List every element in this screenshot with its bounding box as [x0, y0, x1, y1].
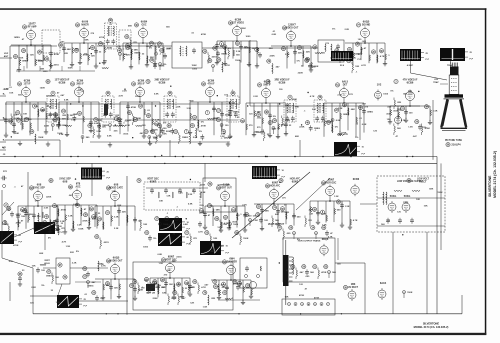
- svg-text:HV RECT: HV RECT: [348, 287, 359, 289]
- svg-text:5%: 5%: [273, 116, 276, 118]
- svg-text:2.2K: 2.2K: [285, 212, 290, 214]
- svg-text:68K: 68K: [117, 205, 121, 207]
- svg-text:3.3K: 3.3K: [14, 118, 19, 120]
- svg-text:2.2K: 2.2K: [124, 120, 129, 122]
- svg-text:470K: 470K: [321, 271, 327, 274]
- svg-text:1000: 1000: [383, 93, 389, 95]
- svg-text:68K: 68K: [216, 210, 220, 212]
- svg-text:150K: 150K: [18, 58, 24, 60]
- svg-text:6.8K: 6.8K: [336, 120, 341, 122]
- svg-text:68K: 68K: [265, 211, 269, 213]
- svg-text:470K: 470K: [199, 211, 205, 214]
- svg-text:21ALP4: 21ALP4: [451, 143, 461, 146]
- svg-text:68K: 68K: [103, 60, 107, 62]
- svg-text:P-P: P-P: [84, 306, 88, 308]
- svg-text:VERT OUTPUT: VERT OUTPUT: [268, 224, 285, 226]
- svg-text:6.8K: 6.8K: [94, 123, 99, 125]
- svg-text:.0015: .0015: [176, 257, 182, 259]
- svg-text:470K: 470K: [13, 244, 19, 247]
- svg-text:470K: 470K: [314, 297, 320, 300]
- svg-text:10K: 10K: [9, 93, 13, 95]
- svg-text:1MEG: 1MEG: [52, 119, 58, 121]
- svg-text:2ND IF: 2ND IF: [76, 84, 84, 86]
- svg-text:5%: 5%: [297, 61, 300, 63]
- svg-text:NOISE GATE: NOISE GATE: [109, 187, 123, 190]
- svg-text:4.7K: 4.7K: [328, 236, 333, 239]
- svg-text:6CD6: 6CD6: [353, 178, 360, 181]
- svg-text:5%: 5%: [48, 238, 51, 240]
- svg-text:1000: 1000: [192, 69, 198, 71]
- svg-text:DET: DET: [343, 85, 348, 87]
- svg-text:PICTURE TUBE: PICTURE TUBE: [445, 140, 462, 142]
- svg-text:2.2K: 2.2K: [72, 263, 77, 265]
- svg-text:220K: 220K: [200, 184, 206, 186]
- svg-text:SILVERTONE: SILVERTONE: [488, 175, 492, 197]
- svg-text:.0015: .0015: [15, 214, 21, 216]
- svg-text:22K: 22K: [99, 264, 103, 266]
- svg-text:1.5K: 1.5K: [253, 220, 258, 222]
- svg-text:MODEL 2174 (Ch. 132.035-2): MODEL 2174 (Ch. 132.035-2): [493, 151, 497, 198]
- svg-text:5%: 5%: [390, 91, 393, 93]
- svg-text:VERT LIN: VERT LIN: [146, 293, 156, 295]
- svg-text:220K: 220K: [241, 28, 247, 30]
- svg-text:SOUND: SOUND: [362, 25, 371, 27]
- svg-text:10K: 10K: [21, 216, 25, 218]
- svg-text:1.5K: 1.5K: [71, 120, 76, 122]
- svg-text:22K: 22K: [62, 115, 66, 117]
- svg-text:3.3K: 3.3K: [36, 60, 41, 62]
- svg-text:1MEG: 1MEG: [182, 137, 188, 139]
- svg-text:2.2K: 2.2K: [190, 287, 195, 289]
- svg-text:P-P: P-P: [470, 59, 474, 61]
- svg-text:6SN7: 6SN7: [150, 180, 157, 184]
- svg-text:1MEG: 1MEG: [102, 125, 108, 127]
- svg-text:.0015: .0015: [53, 64, 59, 66]
- svg-text:4.5MC AMPL: 4.5MC AMPL: [217, 184, 231, 187]
- svg-text:.0015: .0015: [220, 285, 226, 287]
- svg-text:6.8K: 6.8K: [64, 99, 69, 101]
- svg-text:12AT7: 12AT7: [28, 23, 36, 26]
- svg-text:68K: 68K: [172, 261, 176, 263]
- svg-text:6.8K: 6.8K: [272, 34, 277, 36]
- svg-text:470K: 470K: [201, 125, 207, 128]
- svg-text:470K: 470K: [107, 47, 113, 50]
- svg-text:220K: 220K: [135, 96, 141, 98]
- svg-text:5%: 5%: [332, 29, 335, 31]
- svg-text:3.3K: 3.3K: [68, 216, 73, 218]
- svg-text:68K: 68K: [269, 48, 273, 50]
- svg-text:TRAP: TRAP: [433, 81, 439, 84]
- svg-text:5%: 5%: [76, 251, 79, 253]
- svg-text:22K: 22K: [244, 47, 248, 49]
- svg-text:1.5K: 1.5K: [203, 307, 208, 309]
- svg-text:.0015: .0015: [123, 134, 129, 136]
- svg-text:1MEG: 1MEG: [87, 285, 93, 287]
- svg-text:150K: 150K: [67, 68, 73, 70]
- svg-text:5U4G: 5U4G: [404, 195, 411, 198]
- svg-text:10K: 10K: [32, 266, 36, 268]
- svg-text:22K: 22K: [166, 48, 170, 50]
- svg-text:1.5K: 1.5K: [408, 126, 413, 128]
- svg-text:1.5K: 1.5K: [322, 224, 327, 226]
- svg-text:10K: 10K: [159, 201, 163, 203]
- svg-text:6U8: 6U8: [37, 184, 42, 187]
- svg-text:3.3K: 3.3K: [114, 228, 119, 230]
- svg-text:12K: 12K: [213, 238, 217, 240]
- svg-text:220K: 220K: [46, 197, 52, 199]
- svg-text:ANT: ANT: [4, 55, 9, 58]
- svg-text:SYNC SEP: SYNC SEP: [33, 188, 45, 190]
- svg-text:1ST IF: 1ST IF: [24, 84, 31, 86]
- svg-text:12K: 12K: [30, 303, 34, 305]
- svg-text:12K: 12K: [91, 56, 95, 58]
- svg-text:1.5K: 1.5K: [334, 196, 339, 198]
- svg-text:6.8K: 6.8K: [107, 136, 112, 138]
- svg-text:470K: 470K: [201, 33, 207, 36]
- svg-text:5%: 5%: [297, 239, 300, 241]
- svg-text:HOR OUTPUT TRANS: HOR OUTPUT TRANS: [298, 240, 321, 243]
- svg-text:5U4G: 5U4G: [390, 195, 397, 198]
- svg-text:4.7K: 4.7K: [225, 64, 230, 67]
- svg-text:470K: 470K: [131, 106, 137, 109]
- svg-text:22K: 22K: [298, 53, 302, 55]
- svg-text:12K: 12K: [166, 195, 170, 197]
- svg-text:HOLD: HOLD: [44, 263, 50, 265]
- svg-text:6T8: 6T8: [76, 183, 81, 186]
- svg-text:6.8K: 6.8K: [157, 254, 162, 256]
- svg-text:1.5K: 1.5K: [433, 111, 438, 113]
- svg-text:2.2K: 2.2K: [77, 224, 82, 226]
- svg-text:22K: 22K: [122, 212, 126, 214]
- svg-text:SILVERTONE: SILVERTONE: [423, 322, 440, 326]
- svg-text:220K: 220K: [269, 56, 275, 58]
- svg-text:2.2K: 2.2K: [337, 95, 342, 97]
- svg-text:68K: 68K: [39, 253, 43, 255]
- svg-text:12K: 12K: [416, 199, 420, 201]
- svg-text:6W4: 6W4: [229, 258, 235, 261]
- svg-text:12K: 12K: [190, 302, 194, 304]
- svg-text:12K: 12K: [213, 118, 217, 120]
- svg-text:470K: 470K: [299, 294, 305, 297]
- svg-text:22K: 22K: [70, 252, 74, 254]
- svg-text:3.3K: 3.3K: [151, 287, 156, 289]
- svg-text:2.2K: 2.2K: [253, 96, 258, 98]
- svg-text:1MEG: 1MEG: [46, 276, 52, 278]
- svg-text:5%: 5%: [153, 238, 156, 240]
- svg-text:150K: 150K: [40, 88, 46, 90]
- svg-text:5%: 5%: [35, 200, 38, 202]
- svg-text:470K: 470K: [82, 220, 88, 223]
- svg-text:HOR AFC: HOR AFC: [270, 185, 281, 188]
- svg-text:6CB6: 6CB6: [235, 19, 242, 22]
- svg-text:6.8K: 6.8K: [183, 224, 188, 226]
- svg-text:6AU6: 6AU6: [264, 81, 271, 84]
- svg-text:4TH IF: 4TH IF: [207, 83, 215, 86]
- svg-text:470K: 470K: [285, 119, 291, 122]
- svg-text:5%: 5%: [335, 126, 338, 128]
- svg-text:4.7K: 4.7K: [353, 219, 358, 222]
- svg-text:6.8K: 6.8K: [73, 204, 78, 206]
- svg-text:1MEG: 1MEG: [134, 53, 140, 55]
- svg-text:2.2K: 2.2K: [31, 287, 36, 289]
- svg-text:4.7K: 4.7K: [62, 241, 67, 244]
- svg-text:68K: 68K: [295, 136, 299, 138]
- svg-text:1MEG: 1MEG: [158, 66, 164, 68]
- svg-text:6AQ5: 6AQ5: [113, 257, 120, 260]
- svg-text:47K: 47K: [2, 146, 6, 149]
- svg-text:3.3K: 3.3K: [188, 194, 193, 196]
- svg-text:AUDIO OUT: AUDIO OUT: [110, 260, 123, 263]
- svg-text:220K: 220K: [171, 298, 177, 300]
- svg-text:68K: 68K: [134, 50, 138, 52]
- svg-text:220K: 220K: [117, 119, 123, 121]
- svg-text:3RD IF: 3RD IF: [137, 84, 145, 86]
- svg-text:DAMPER: DAMPER: [227, 261, 237, 264]
- svg-text:2.2K: 2.2K: [272, 129, 277, 131]
- svg-text:5%: 5%: [201, 121, 204, 123]
- svg-text:4.7K: 4.7K: [198, 231, 203, 234]
- svg-text:2.2K: 2.2K: [338, 108, 343, 110]
- svg-text:5%: 5%: [306, 59, 309, 61]
- svg-text:2.2K: 2.2K: [242, 204, 247, 206]
- svg-text:22K: 22K: [13, 115, 17, 117]
- svg-text:2.2K: 2.2K: [122, 90, 127, 92]
- svg-text:150K: 150K: [14, 133, 20, 135]
- svg-text:3.3K: 3.3K: [186, 108, 191, 110]
- svg-text:1B3: 1B3: [351, 283, 356, 286]
- svg-text:4.5MC: 4.5MC: [407, 64, 414, 67]
- svg-text:22K: 22K: [64, 53, 68, 55]
- svg-text:6SN7: 6SN7: [272, 182, 279, 185]
- svg-text:150K: 150K: [78, 228, 84, 230]
- svg-text:1.5K: 1.5K: [66, 246, 71, 248]
- svg-text:4.7K: 4.7K: [310, 95, 315, 98]
- svg-text:10K: 10K: [154, 129, 158, 131]
- svg-text:AGC: AGC: [75, 186, 80, 189]
- svg-text:10K: 10K: [169, 284, 173, 286]
- svg-text:12K: 12K: [111, 191, 115, 193]
- svg-text:1000: 1000: [189, 101, 195, 103]
- svg-text:1MEG: 1MEG: [221, 54, 227, 56]
- svg-text:6.8K: 6.8K: [4, 88, 9, 90]
- svg-text:12K: 12K: [30, 55, 34, 57]
- svg-text:5%: 5%: [41, 285, 44, 287]
- svg-text:6AB4: 6AB4: [141, 21, 148, 24]
- svg-text:10K: 10K: [355, 66, 359, 68]
- svg-text:4.7K: 4.7K: [380, 55, 385, 58]
- svg-text:VERT OUT: VERT OUT: [220, 188, 232, 190]
- svg-text:150K: 150K: [407, 292, 413, 294]
- svg-text:.0015: .0015: [210, 251, 216, 253]
- svg-text:1.5K: 1.5K: [285, 105, 290, 107]
- svg-text:2.2K: 2.2K: [285, 54, 290, 56]
- svg-text:68K: 68K: [351, 109, 355, 111]
- svg-text:1V2: 1V2: [377, 84, 382, 87]
- svg-text:6CB6: 6CB6: [59, 81, 66, 85]
- svg-text:220K: 220K: [298, 73, 304, 75]
- svg-text:68K: 68K: [40, 69, 44, 71]
- svg-text:22K: 22K: [62, 119, 66, 121]
- svg-text:5%: 5%: [355, 137, 358, 139]
- svg-text:6AU6: 6AU6: [82, 21, 89, 24]
- svg-text:1000: 1000: [233, 224, 239, 226]
- svg-text:6CB6: 6CB6: [159, 81, 166, 85]
- svg-text:P-P: P-P: [19, 242, 23, 244]
- svg-text:150K: 150K: [254, 131, 260, 133]
- svg-text:12K: 12K: [153, 138, 157, 140]
- svg-text:6CB6: 6CB6: [279, 81, 286, 85]
- svg-text:6U8: 6U8: [114, 184, 119, 187]
- svg-text:3.3K: 3.3K: [236, 51, 241, 53]
- svg-text:MIXER: MIXER: [81, 25, 89, 27]
- svg-text:6AL5: 6AL5: [342, 81, 349, 84]
- svg-text:12BY7: 12BY7: [288, 24, 296, 27]
- svg-text:1.5K: 1.5K: [158, 263, 163, 265]
- svg-text:6CB6: 6CB6: [77, 80, 84, 83]
- svg-text:68K: 68K: [128, 26, 132, 28]
- svg-text:12K: 12K: [114, 288, 118, 290]
- svg-text:6.8K: 6.8K: [188, 204, 193, 206]
- svg-text:22K: 22K: [211, 298, 215, 300]
- svg-text:220K: 220K: [146, 46, 152, 48]
- svg-text:6CB6: 6CB6: [208, 80, 215, 83]
- svg-text:6CB6: 6CB6: [138, 80, 145, 83]
- svg-text:6SN7: 6SN7: [292, 180, 299, 184]
- svg-text:5%: 5%: [199, 131, 202, 133]
- svg-text:10K: 10K: [117, 47, 121, 49]
- svg-text:.0015: .0015: [103, 242, 109, 244]
- svg-text:VIDEO OUT: VIDEO OUT: [286, 28, 299, 30]
- svg-text:3.3K: 3.3K: [125, 125, 130, 127]
- svg-text:1.5K: 1.5K: [178, 192, 183, 194]
- svg-text:.0015: .0015: [211, 57, 217, 59]
- svg-text:RF AMP: RF AMP: [28, 26, 37, 29]
- svg-text:4.7K: 4.7K: [361, 64, 366, 67]
- svg-text:220K: 220K: [292, 99, 298, 101]
- svg-text:5%: 5%: [201, 205, 204, 207]
- svg-text:2.2K: 2.2K: [344, 29, 349, 31]
- svg-text:150K: 150K: [243, 238, 249, 240]
- svg-text:150K: 150K: [38, 137, 44, 139]
- svg-text:1000: 1000: [245, 36, 251, 38]
- svg-text:3.3K: 3.3K: [97, 120, 102, 122]
- svg-text:470K: 470K: [341, 131, 347, 134]
- svg-text:6CB6: 6CB6: [24, 80, 31, 83]
- svg-text:68K: 68K: [275, 214, 279, 216]
- svg-text:P-P: P-P: [282, 177, 286, 179]
- svg-text:P-P: P-P: [358, 59, 362, 61]
- svg-text:1MEG: 1MEG: [367, 112, 373, 114]
- svg-text:10K: 10K: [22, 121, 26, 123]
- svg-text:6AQ5: 6AQ5: [363, 21, 370, 24]
- svg-text:3.3K: 3.3K: [155, 120, 160, 122]
- svg-text:10K: 10K: [424, 206, 428, 208]
- svg-text:1MEG: 1MEG: [233, 112, 239, 114]
- svg-text:22K: 22K: [115, 115, 119, 117]
- svg-text:HOR OSC: HOR OSC: [326, 183, 337, 185]
- svg-text:22K: 22K: [176, 106, 180, 108]
- svg-text:6SN7: 6SN7: [168, 256, 175, 259]
- svg-text:10K: 10K: [284, 296, 288, 298]
- svg-text:68K: 68K: [67, 49, 71, 51]
- svg-text:1.5K: 1.5K: [56, 302, 61, 304]
- svg-text:P-P: P-P: [107, 177, 111, 179]
- svg-text:12K: 12K: [162, 293, 166, 295]
- svg-text:10K: 10K: [223, 224, 227, 226]
- svg-text:P-P: P-P: [362, 154, 366, 156]
- svg-text:470K: 470K: [16, 222, 22, 225]
- svg-text:1000: 1000: [43, 71, 49, 73]
- svg-text:6.8K: 6.8K: [201, 192, 206, 194]
- svg-text:3.3K: 3.3K: [44, 208, 49, 210]
- svg-text:5%: 5%: [158, 285, 161, 287]
- svg-text:LOW VOLTAGE SUPPLY: LOW VOLTAGE SUPPLY: [397, 180, 424, 183]
- svg-text:VHF: VHF: [4, 53, 9, 55]
- svg-text:5%: 5%: [163, 123, 166, 125]
- svg-text:4.7K: 4.7K: [118, 95, 123, 98]
- svg-text:2.2K: 2.2K: [193, 137, 198, 139]
- svg-text:470K: 470K: [233, 283, 239, 286]
- svg-text:4.7K: 4.7K: [309, 209, 314, 212]
- svg-text:220K: 220K: [299, 127, 305, 129]
- svg-text:P-P: P-P: [426, 59, 430, 61]
- svg-text:68K: 68K: [295, 107, 299, 109]
- svg-text:220K: 220K: [44, 126, 50, 128]
- svg-text:6U8: 6U8: [63, 180, 68, 184]
- svg-text:10K: 10K: [163, 134, 167, 136]
- svg-text:150K: 150K: [437, 192, 443, 194]
- svg-text:470K: 470K: [54, 53, 60, 56]
- svg-text:P-P: P-P: [226, 253, 230, 255]
- svg-text:150K: 150K: [191, 65, 197, 67]
- svg-text:1ST VIDEO: 1ST VIDEO: [232, 23, 244, 25]
- svg-text:6.8K: 6.8K: [154, 93, 159, 95]
- svg-text:6.8K: 6.8K: [362, 124, 367, 126]
- svg-text:22K: 22K: [306, 52, 310, 54]
- svg-text:10K: 10K: [23, 113, 27, 115]
- svg-text:VERT: VERT: [44, 260, 50, 262]
- svg-text:150K: 150K: [403, 202, 409, 204]
- svg-text:10K: 10K: [143, 224, 147, 226]
- svg-text:ION: ION: [434, 79, 438, 81]
- svg-text:1000: 1000: [143, 247, 149, 249]
- svg-text:22K: 22K: [397, 102, 401, 104]
- svg-text:1MEG: 1MEG: [14, 37, 20, 39]
- svg-text:470K: 470K: [61, 209, 67, 212]
- svg-text:150K: 150K: [57, 133, 63, 135]
- svg-text:22K: 22K: [312, 109, 316, 111]
- svg-text:5%: 5%: [423, 127, 426, 129]
- svg-text:SND IF: SND IF: [263, 85, 271, 87]
- svg-text:470K: 470K: [99, 36, 105, 39]
- svg-text:68K: 68K: [85, 39, 89, 41]
- svg-text:3.3K: 3.3K: [114, 217, 119, 219]
- svg-text:220K: 220K: [152, 298, 158, 300]
- svg-text:6CB6: 6CB6: [407, 81, 414, 85]
- svg-text:5%: 5%: [230, 111, 233, 113]
- svg-text:6AX4: 6AX4: [380, 282, 387, 285]
- svg-text:68K: 68K: [429, 189, 433, 191]
- svg-text:1.5K: 1.5K: [345, 206, 350, 208]
- svg-text:MODEL 2174 (Ch. 132.035-2): MODEL 2174 (Ch. 132.035-2): [414, 325, 449, 329]
- svg-text:OSC: OSC: [142, 25, 147, 27]
